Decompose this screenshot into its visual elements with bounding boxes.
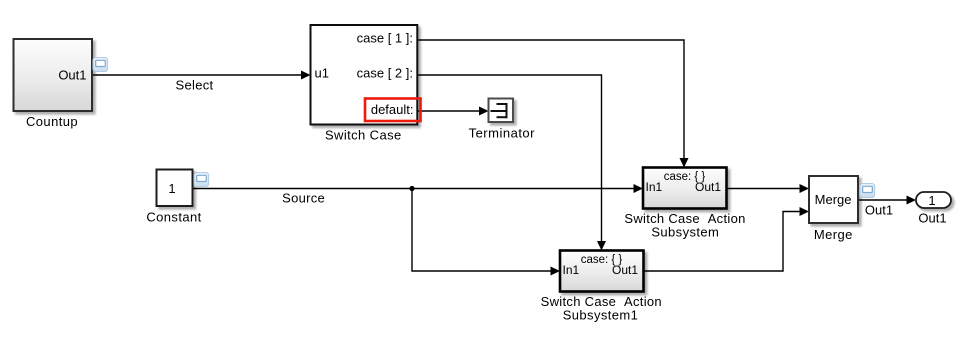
svg-text:Constant: Constant bbox=[146, 210, 201, 225]
svg-text:Out1: Out1 bbox=[612, 263, 638, 277]
svg-text:Terminator: Terminator bbox=[469, 126, 536, 141]
svg-text:case [ 2 ]:: case [ 2 ]: bbox=[357, 65, 413, 80]
svg-text:In1: In1 bbox=[646, 180, 663, 194]
svg-text:In1: In1 bbox=[563, 263, 580, 277]
svg-text:u1: u1 bbox=[315, 65, 329, 80]
svg-text:Source: Source bbox=[282, 190, 325, 205]
svg-text:case [ 1 ]:: case [ 1 ]: bbox=[357, 31, 413, 46]
svg-text:Out1: Out1 bbox=[58, 68, 86, 83]
svg-text:Subsystem: Subsystem bbox=[651, 225, 719, 240]
svg-text:1: 1 bbox=[168, 181, 175, 196]
svg-text:default:: default: bbox=[371, 102, 414, 117]
svg-text:Out1: Out1 bbox=[695, 180, 721, 194]
svg-text:Switch Case: Switch Case bbox=[325, 128, 402, 143]
svg-text:Merge: Merge bbox=[815, 192, 852, 207]
svg-text:Select: Select bbox=[176, 77, 214, 92]
svg-text:1: 1 bbox=[928, 193, 935, 208]
svg-text:Countup: Countup bbox=[26, 114, 78, 129]
svg-text:Subsystem1: Subsystem1 bbox=[563, 308, 639, 323]
svg-text:Out1: Out1 bbox=[918, 210, 946, 225]
svg-text:Merge: Merge bbox=[814, 227, 853, 242]
svg-text:Out1: Out1 bbox=[865, 203, 893, 218]
